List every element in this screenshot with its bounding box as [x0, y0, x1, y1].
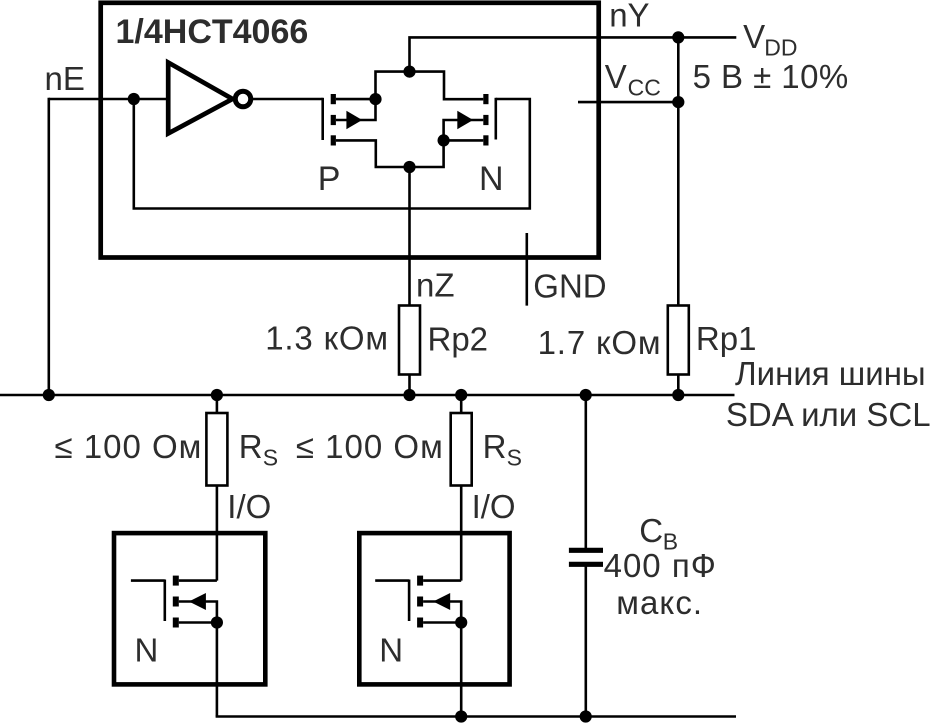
wire Rp2 to bus	[408, 375, 411, 396]
wire VDD vertical to Rp1	[677, 37, 680, 305]
resistor RS1	[206, 413, 227, 486]
transistor Q3 body arrow	[189, 593, 206, 610]
svg-text:SDA или SCL: SDA или SCL	[726, 396, 931, 433]
svg-text:N: N	[479, 160, 504, 198]
svg-text:≤ 100 Ом: ≤ 100 Ом	[55, 428, 203, 465]
node Q3 source dot	[211, 616, 223, 628]
svg-text:I/O: I/O	[227, 488, 271, 525]
svg-text:V: V	[605, 58, 627, 95]
wire TG bottom rail	[336, 140, 483, 167]
wire Q3 body	[179, 602, 217, 623]
svg-text:1.7 кОм: 1.7 кОм	[538, 324, 662, 361]
wire VCC stub	[578, 101, 678, 104]
svg-text:Rp1: Rp1	[696, 320, 757, 357]
transistor Q4 body arrow	[433, 593, 450, 610]
wire GND tick	[525, 233, 528, 306]
wire Q1 body to node	[336, 99, 376, 120]
svg-text:nE: nE	[45, 60, 85, 97]
wire transmission-gate top rail	[376, 72, 484, 100]
svg-text:CC: CC	[628, 74, 661, 100]
resistor RS2	[451, 413, 472, 486]
IC box U1 (1/4HCT4066)	[101, 3, 599, 258]
svg-text:1.3 кОм: 1.3 кОм	[265, 320, 389, 357]
transistor Q1 channel stubs	[331, 94, 336, 104]
svg-text:DD: DD	[764, 35, 797, 61]
wire Q3 source	[179, 621, 217, 624]
svg-text:nZ: nZ	[416, 267, 455, 304]
transistor Q1 P-MOSFET gate bar	[321, 98, 324, 140]
transistor Q4 N-MOSFET gate	[375, 580, 409, 622]
wire Q4 drain	[423, 579, 461, 582]
wire bus to RS1	[216, 395, 219, 413]
svg-text:S: S	[263, 445, 278, 471]
transistor Q2 body arrow	[457, 111, 473, 129]
wire bus line SDA/SCL	[0, 394, 735, 397]
wire CB to ground rail	[584, 567, 587, 717]
capacitor CB plates	[569, 548, 603, 553]
svg-text:≤ 100 Ом: ≤ 100 Ом	[296, 428, 444, 465]
device box 2	[359, 533, 509, 684]
wire Q4 to ground rail	[460, 623, 463, 717]
resistor Rp2	[399, 306, 420, 375]
svg-text:C: C	[639, 512, 663, 549]
wire bus to CB	[584, 395, 587, 548]
wire Q2 body to node	[444, 120, 484, 140]
svg-text:V: V	[743, 18, 765, 55]
wire Rp1 to bus	[677, 375, 680, 396]
transistor Q4 channel stubs	[417, 576, 423, 586]
inverter output bubble	[235, 91, 251, 107]
node VDD rail dot	[672, 31, 684, 43]
wire bus to RS2	[460, 395, 463, 413]
resistor Rp1	[668, 306, 689, 375]
svg-text:nY: nY	[609, 0, 649, 34]
svg-text:R: R	[239, 428, 263, 465]
wire nY riser and rail to VDD	[410, 37, 737, 71]
transistor Q2 N-MOSFET channel stubs	[483, 94, 488, 104]
svg-text:GND: GND	[533, 268, 606, 305]
device box 1	[114, 533, 265, 684]
svg-text:N: N	[379, 632, 403, 669]
svg-text:R: R	[483, 428, 507, 465]
wire RS1 to FET1 drain	[216, 486, 219, 581]
svg-text:400 пФ: 400 пФ	[604, 547, 717, 584]
wire Q1 drain to node	[336, 98, 376, 101]
node nE junction dot	[128, 93, 140, 105]
wire nE horizontal into inverter input	[49, 98, 168, 101]
node TG top dot	[403, 66, 415, 78]
wire nZ down to Rp2	[408, 167, 411, 306]
node Q1 drain dot	[369, 93, 381, 105]
op-amp inverter A1 triangle	[168, 63, 232, 134]
node rail dots	[455, 710, 467, 722]
node Q2 source dot	[438, 134, 450, 146]
wire nE vertical down to bus	[47, 98, 50, 395]
wire RS2 to FET2 drain	[460, 486, 463, 581]
svg-text:Rp2: Rp2	[428, 321, 489, 358]
transistor Q3 N-MOSFET gate	[131, 580, 165, 622]
node nZ top dot	[403, 161, 415, 173]
svg-text:P: P	[318, 160, 341, 198]
svg-text:1/4HCT4066: 1/4HCT4066	[116, 13, 309, 51]
wire Q3 drain	[179, 579, 217, 582]
node Q4 source dot	[455, 616, 467, 628]
svg-text:макс.: макс.	[616, 584, 703, 621]
svg-text:S: S	[507, 445, 522, 471]
svg-text:Линия шины: Линия шины	[735, 355, 926, 392]
wire Q3 to ground rail	[216, 623, 219, 717]
wire inverter output to P gate	[253, 98, 323, 101]
node VCC dot	[672, 96, 684, 108]
svg-text:N: N	[135, 632, 159, 669]
wire Q4 source	[423, 621, 461, 624]
svg-text:I/O: I/O	[472, 488, 516, 525]
node bus dots	[43, 389, 55, 401]
transistor Q2 gate bar	[494, 98, 497, 140]
transistor Q1 body arrow	[346, 111, 362, 129]
wire ground rail	[216, 715, 736, 718]
wire Q2 gate feedback to nE	[134, 99, 530, 209]
transistor Q3 channel stubs	[173, 576, 179, 586]
svg-text:5 В ± 10%: 5 В ± 10%	[693, 58, 849, 95]
wire Q4 body	[423, 602, 461, 623]
